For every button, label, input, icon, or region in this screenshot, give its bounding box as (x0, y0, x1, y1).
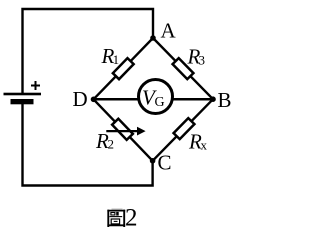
wire: D to B horizontal through galvanometer (94, 98, 214, 100)
wire: D to C diagonal (94, 99, 153, 161)
svg-text:2: 2 (108, 137, 115, 152)
node A dot (150, 35, 156, 41)
svg-text:x: x (201, 138, 208, 153)
node B dot (210, 96, 216, 102)
svg-text:3: 3 (199, 53, 206, 68)
battery long positive plate (4, 93, 42, 96)
node D dot (91, 97, 97, 103)
wire: A to B diagonal (153, 38, 213, 99)
battery E (left) (4, 81, 42, 104)
galvanometer U1 circle (139, 80, 173, 114)
svg-text:D: D (73, 87, 88, 111)
svg-text:A: A (161, 19, 177, 43)
resistor R3 (A-B arm) (173, 58, 194, 79)
wire: D to A diagonal (94, 38, 154, 99)
battery plus sign (31, 81, 40, 90)
svg-text:B: B (218, 88, 232, 112)
wire: outer loop bottom (battery bottom to corner to node C) (23, 103, 153, 186)
svg-text:C: C (158, 151, 172, 175)
battery short thick negative plate (11, 99, 34, 104)
svg-text:1: 1 (113, 52, 120, 67)
caption glyph 圖 (drawn) (107, 209, 125, 227)
arrow of variable resistor R2 (106, 127, 145, 136)
node C dot (150, 158, 156, 164)
svg-text:2: 2 (125, 205, 138, 232)
svg-text:G: G (155, 95, 165, 110)
wire: C to B diagonal (153, 99, 213, 161)
resistor R1 (D-A arm) (113, 58, 134, 79)
resistor R2 variable (D-C arm) (112, 119, 133, 140)
resistor Rx (C-B arm) (174, 118, 195, 139)
wire: outer loop top (battery top to corner to node A) (23, 9, 154, 94)
